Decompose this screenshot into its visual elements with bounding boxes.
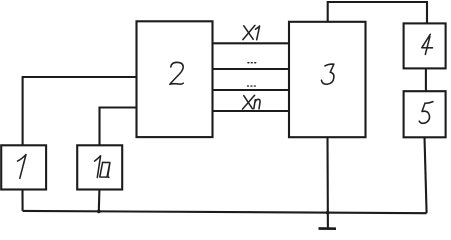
label 1 [18, 155, 27, 179]
label 4 [422, 34, 433, 48]
label dots lower [247, 85, 256, 87]
block 3 [289, 22, 366, 137]
block 1a [77, 145, 122, 189]
wire block5 bottom to ground bus [425, 137, 427, 213]
wire X1 block2 to block3 [213, 42, 290, 44]
node junction block3 bus [326, 211, 330, 215]
block 5 [404, 91, 446, 137]
block 1 [1, 145, 46, 189]
label 3 [321, 64, 334, 84]
wire block1a bottom to bus [98, 190, 101, 212]
wire block1 bottom to bus [21, 190, 23, 211]
wire X3 block2 to block3 [213, 89, 290, 91]
ground bar [319, 227, 337, 230]
wire block1a top to block2 left [100, 108, 137, 146]
block 2 [137, 21, 213, 137]
wire block1 top to block2 left [23, 77, 137, 145]
label Xn [244, 96, 253, 109]
wire block4 to block5 [425, 68, 427, 91]
label 5 [419, 102, 433, 124]
label dots upper [247, 62, 256, 64]
wire block3 top to block4 top [328, 2, 427, 23]
wire ground bus bottom [23, 211, 427, 213]
block 4 [404, 23, 446, 68]
label 1a [95, 156, 101, 178]
label X1 [244, 26, 253, 40]
wire block3 bottom to ground [326, 137, 328, 228]
node junction block1a bus [97, 210, 101, 214]
wire Xn block2 to block3 [213, 110, 290, 112]
wire X2 block2 to block3 [213, 68, 290, 70]
label 2 [171, 62, 184, 83]
